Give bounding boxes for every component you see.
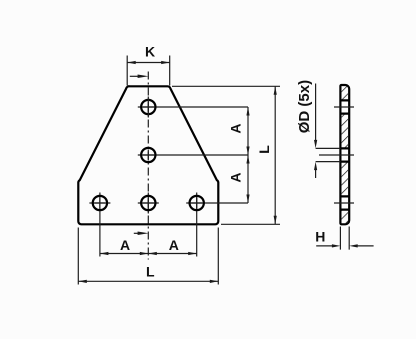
svg-text:H: H [315, 229, 325, 245]
svg-text:A: A [169, 237, 179, 253]
svg-text:A: A [228, 172, 244, 182]
svg-text:L: L [256, 145, 272, 154]
svg-text:K: K [145, 44, 155, 60]
svg-text:A: A [228, 123, 244, 133]
svg-text:A: A [120, 237, 130, 253]
svg-text:ØD (5x): ØD (5x) [296, 80, 313, 133]
svg-text:L: L [146, 263, 155, 279]
